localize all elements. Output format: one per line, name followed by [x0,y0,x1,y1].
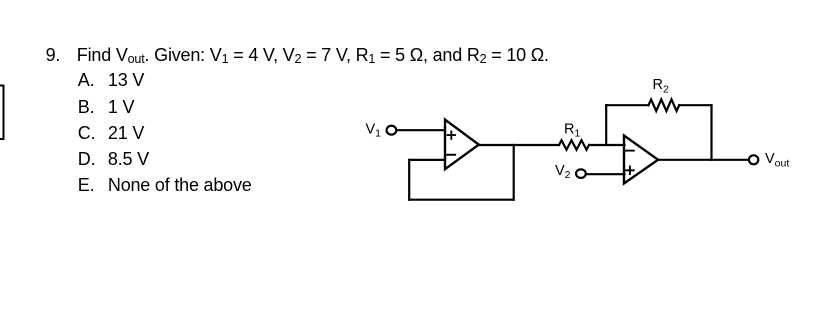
node junction feedback R2 tap [605,105,607,145]
svg-text:R1: R1 [564,121,580,139]
option D [78,150,96,168]
wire V1 terminal to U1 noninverting input [397,129,445,131]
option E [78,176,95,194]
resistor R1 [559,140,589,150]
terminal V1 [387,126,397,135]
svg-text:R2: R2 [653,77,669,95]
svg-text:V2: V2 [555,163,571,181]
wire U1 output to R1 [479,144,559,146]
wire V2 terminal to U2 noninverting input [586,173,624,175]
question line 9 [46,46,61,64]
wire feedback left vertical [408,160,410,200]
option C [78,124,96,142]
wire R1 to U2 inverting input [589,144,625,146]
wire feedback right vertical up to U1 output [513,145,515,200]
op-amp U2 [624,136,658,184]
op-amp U1 [445,120,479,170]
wire R2 to right vertical [679,104,711,106]
terminal Vout [749,155,758,164]
svg-text:V1: V1 [366,121,382,139]
option A [78,71,95,89]
wire feedback bottom horizontal [409,199,514,201]
wire U2 output to Vout terminal [658,159,749,161]
partial answer box cut off at left edge [0,0,30,160]
wire feedback right vertical down to U2 output [710,105,712,160]
wire U1 inverting input to feedback (left segment) [409,159,445,161]
svg-text:Vout: Vout [765,151,789,169]
option B [78,98,95,116]
terminal V2 [576,169,586,178]
wire junction to R2 [606,104,648,106]
resistor R2 [649,99,680,111]
